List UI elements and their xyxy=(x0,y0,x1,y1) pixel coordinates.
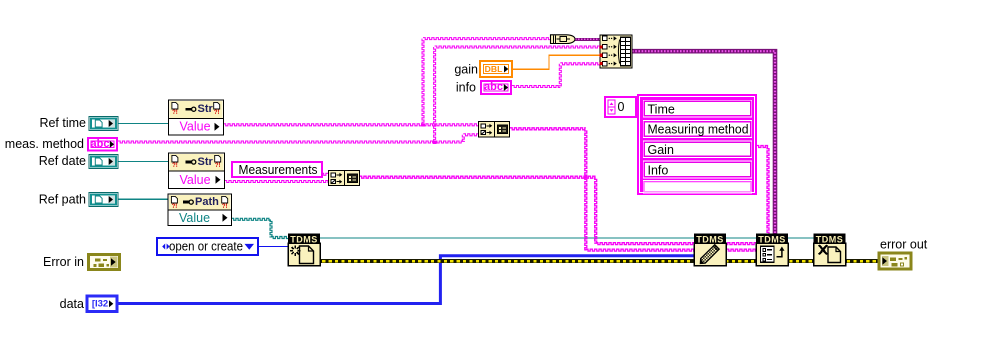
svg-text:Str: Str xyxy=(198,103,214,115)
wire info string up xyxy=(559,64,561,87)
wire date string (Str2 Value out) xyxy=(225,181,329,183)
coercion dot row3 xyxy=(599,54,602,57)
wire property names array xyxy=(757,146,769,148)
control meas. method (string terminal) xyxy=(88,138,117,151)
property node Path (Ref path Value) xyxy=(168,194,232,226)
control Error in (error cluster terminal) xyxy=(89,255,120,270)
property node Str 2 (Ref date Value) xyxy=(169,153,225,189)
svg-text:Value: Value xyxy=(180,173,211,187)
svg-text:Info: Info xyxy=(648,163,669,177)
wire meas method to bundle row2 xyxy=(435,46,600,48)
wire ref path value down xyxy=(270,219,272,237)
svg-text:Ref path: Ref path xyxy=(39,192,86,206)
wire data array xyxy=(117,256,695,304)
svg-text:Value: Value xyxy=(179,211,210,225)
wire tdms refnum chain xyxy=(319,237,816,239)
array constant of property name strings xyxy=(637,94,757,195)
svg-text:DBL: DBL xyxy=(485,64,503,74)
svg-text:open or create: open or create xyxy=(169,240,243,254)
wire time string to To Variant xyxy=(423,38,551,40)
wire variant scalar xyxy=(575,38,601,41)
wire time string branch up xyxy=(422,39,424,125)
wire Ref path refnum xyxy=(118,198,169,200)
junction dot meas method xyxy=(433,140,436,143)
control Ref date (refnum terminal) xyxy=(89,155,118,169)
wire info string to bundle row4 xyxy=(560,63,600,65)
control Ref time (refnum terminal) xyxy=(89,117,118,131)
array index box xyxy=(605,97,636,117)
wire ref path value xyxy=(232,218,272,220)
svg-text:?!: ?! xyxy=(214,110,220,116)
control info (string terminal) xyxy=(481,81,511,94)
build array node 2 xyxy=(329,171,360,186)
wire info string xyxy=(512,86,560,88)
TDMS Close function xyxy=(814,234,846,244)
svg-text:error out: error out xyxy=(880,237,928,251)
wire gain DBL xyxy=(512,68,549,70)
svg-text:?!: ?! xyxy=(222,204,228,210)
wire meas method branch up xyxy=(434,47,436,142)
svg-text:[I32: [I32 xyxy=(92,298,108,309)
wire open-or-create enum xyxy=(258,246,289,248)
svg-text:gain: gain xyxy=(454,62,478,76)
svg-text:Ref time: Ref time xyxy=(39,116,86,130)
TDMS Write function xyxy=(694,234,726,244)
TDMS Open function xyxy=(288,234,320,244)
svg-text:?!: ?! xyxy=(172,110,178,116)
coercion dot row2 xyxy=(599,45,602,48)
wire channel names array xyxy=(510,128,586,130)
svg-text:?!: ?! xyxy=(172,163,178,169)
enum constant open-or-create xyxy=(157,238,258,255)
wire Measurements string xyxy=(322,173,329,175)
wire error chain xyxy=(319,259,880,263)
svg-text:Gain: Gain xyxy=(648,143,674,157)
wire Ref date refnum xyxy=(118,161,169,163)
property node Str 1 (Ref time Value) xyxy=(169,100,224,135)
svg-text:Str: Str xyxy=(198,156,214,168)
build array node 1 xyxy=(479,122,510,138)
svg-text:Error in: Error in xyxy=(43,255,84,269)
wire meas method into build array xyxy=(463,134,478,136)
control Ref path (refnum terminal) xyxy=(89,193,118,207)
wire gain DBL to bundle row3 xyxy=(549,54,600,56)
svg-text:abc: abc xyxy=(91,138,110,150)
svg-text:data: data xyxy=(60,297,84,311)
to-variant node xyxy=(551,35,576,44)
build array of variants node xyxy=(600,35,632,68)
svg-text:Measurements: Measurements xyxy=(239,163,318,177)
svg-text:Ref date: Ref date xyxy=(39,154,86,168)
wire ref path value to TDMS Open xyxy=(271,237,289,239)
TDMS Set Properties function xyxy=(756,234,788,244)
svg-text:?!: ?! xyxy=(215,163,221,169)
svg-text:0: 0 xyxy=(618,100,625,114)
svg-text:Path: Path xyxy=(195,196,219,208)
svg-text:Value: Value xyxy=(180,120,211,134)
wire meas method jog up xyxy=(462,135,464,142)
wire Ref time refnum xyxy=(118,123,169,125)
svg-text:Measuring method: Measuring method xyxy=(648,123,749,137)
control gain (DBL terminal) xyxy=(480,61,512,77)
constant Measurements string xyxy=(232,162,322,177)
wire group names array xyxy=(360,176,596,178)
indicator error out (error cluster terminal) xyxy=(879,253,911,269)
junction dot time string xyxy=(421,123,424,126)
wire gain DBL up xyxy=(548,55,550,70)
wire time string (Str1 Value out) xyxy=(224,124,479,126)
wire variant array xyxy=(632,51,775,234)
coercion dot row4 xyxy=(599,62,602,65)
svg-text:meas. method: meas. method xyxy=(5,137,84,151)
svg-text:Time: Time xyxy=(648,102,675,116)
svg-text:?!: ?! xyxy=(172,204,178,210)
control data (I32 array terminal) xyxy=(87,296,117,312)
svg-text:info: info xyxy=(456,80,476,94)
wire meas method string xyxy=(118,141,463,143)
